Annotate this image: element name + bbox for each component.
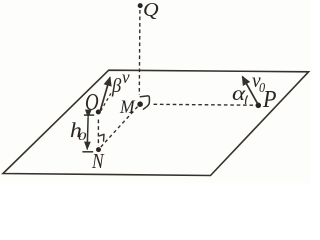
h0 measure: double arrow [86, 117, 89, 149]
point N dot [96, 147, 101, 152]
h0 measure: top tick [84, 114, 94, 116]
label v (at O) [122, 68, 130, 86]
label M [120, 98, 135, 116]
dashed slant line at O (angle beta reference) [101, 92, 112, 111]
point O dot [96, 110, 101, 115]
label O [85, 92, 99, 116]
vector v arrow [100, 77, 110, 112]
plane (parallelogram surface) [3, 70, 309, 175]
h0 measure: bottom tick [82, 151, 93, 153]
label alpha [232, 84, 245, 104]
label N [92, 151, 104, 172]
wire: dashed vertical Q to M [138, 10, 141, 95]
vector v0 arrow [242, 77, 257, 104]
wire: dashed horizontal M to P [154, 103, 255, 106]
label h0: subscript 0 [78, 131, 86, 143]
point P dot [255, 103, 261, 109]
label Q [143, 0, 159, 20]
point Q dot [138, 3, 143, 8]
right-angle marker at M [140, 96, 149, 109]
wire: dashed diagonal N to M [101, 106, 138, 147]
label beta [112, 76, 121, 96]
point M dot [137, 101, 143, 107]
label v0 (at P): subscript 0 [259, 81, 265, 95]
wire: dashed vertical O to N [97, 120, 99, 147]
label P [263, 89, 276, 113]
small right-angle mark near N [99, 134, 104, 141]
label h0: h [70, 121, 82, 142]
label v0 (at P): v [252, 71, 261, 92]
angle alpha arc [246, 95, 248, 104]
